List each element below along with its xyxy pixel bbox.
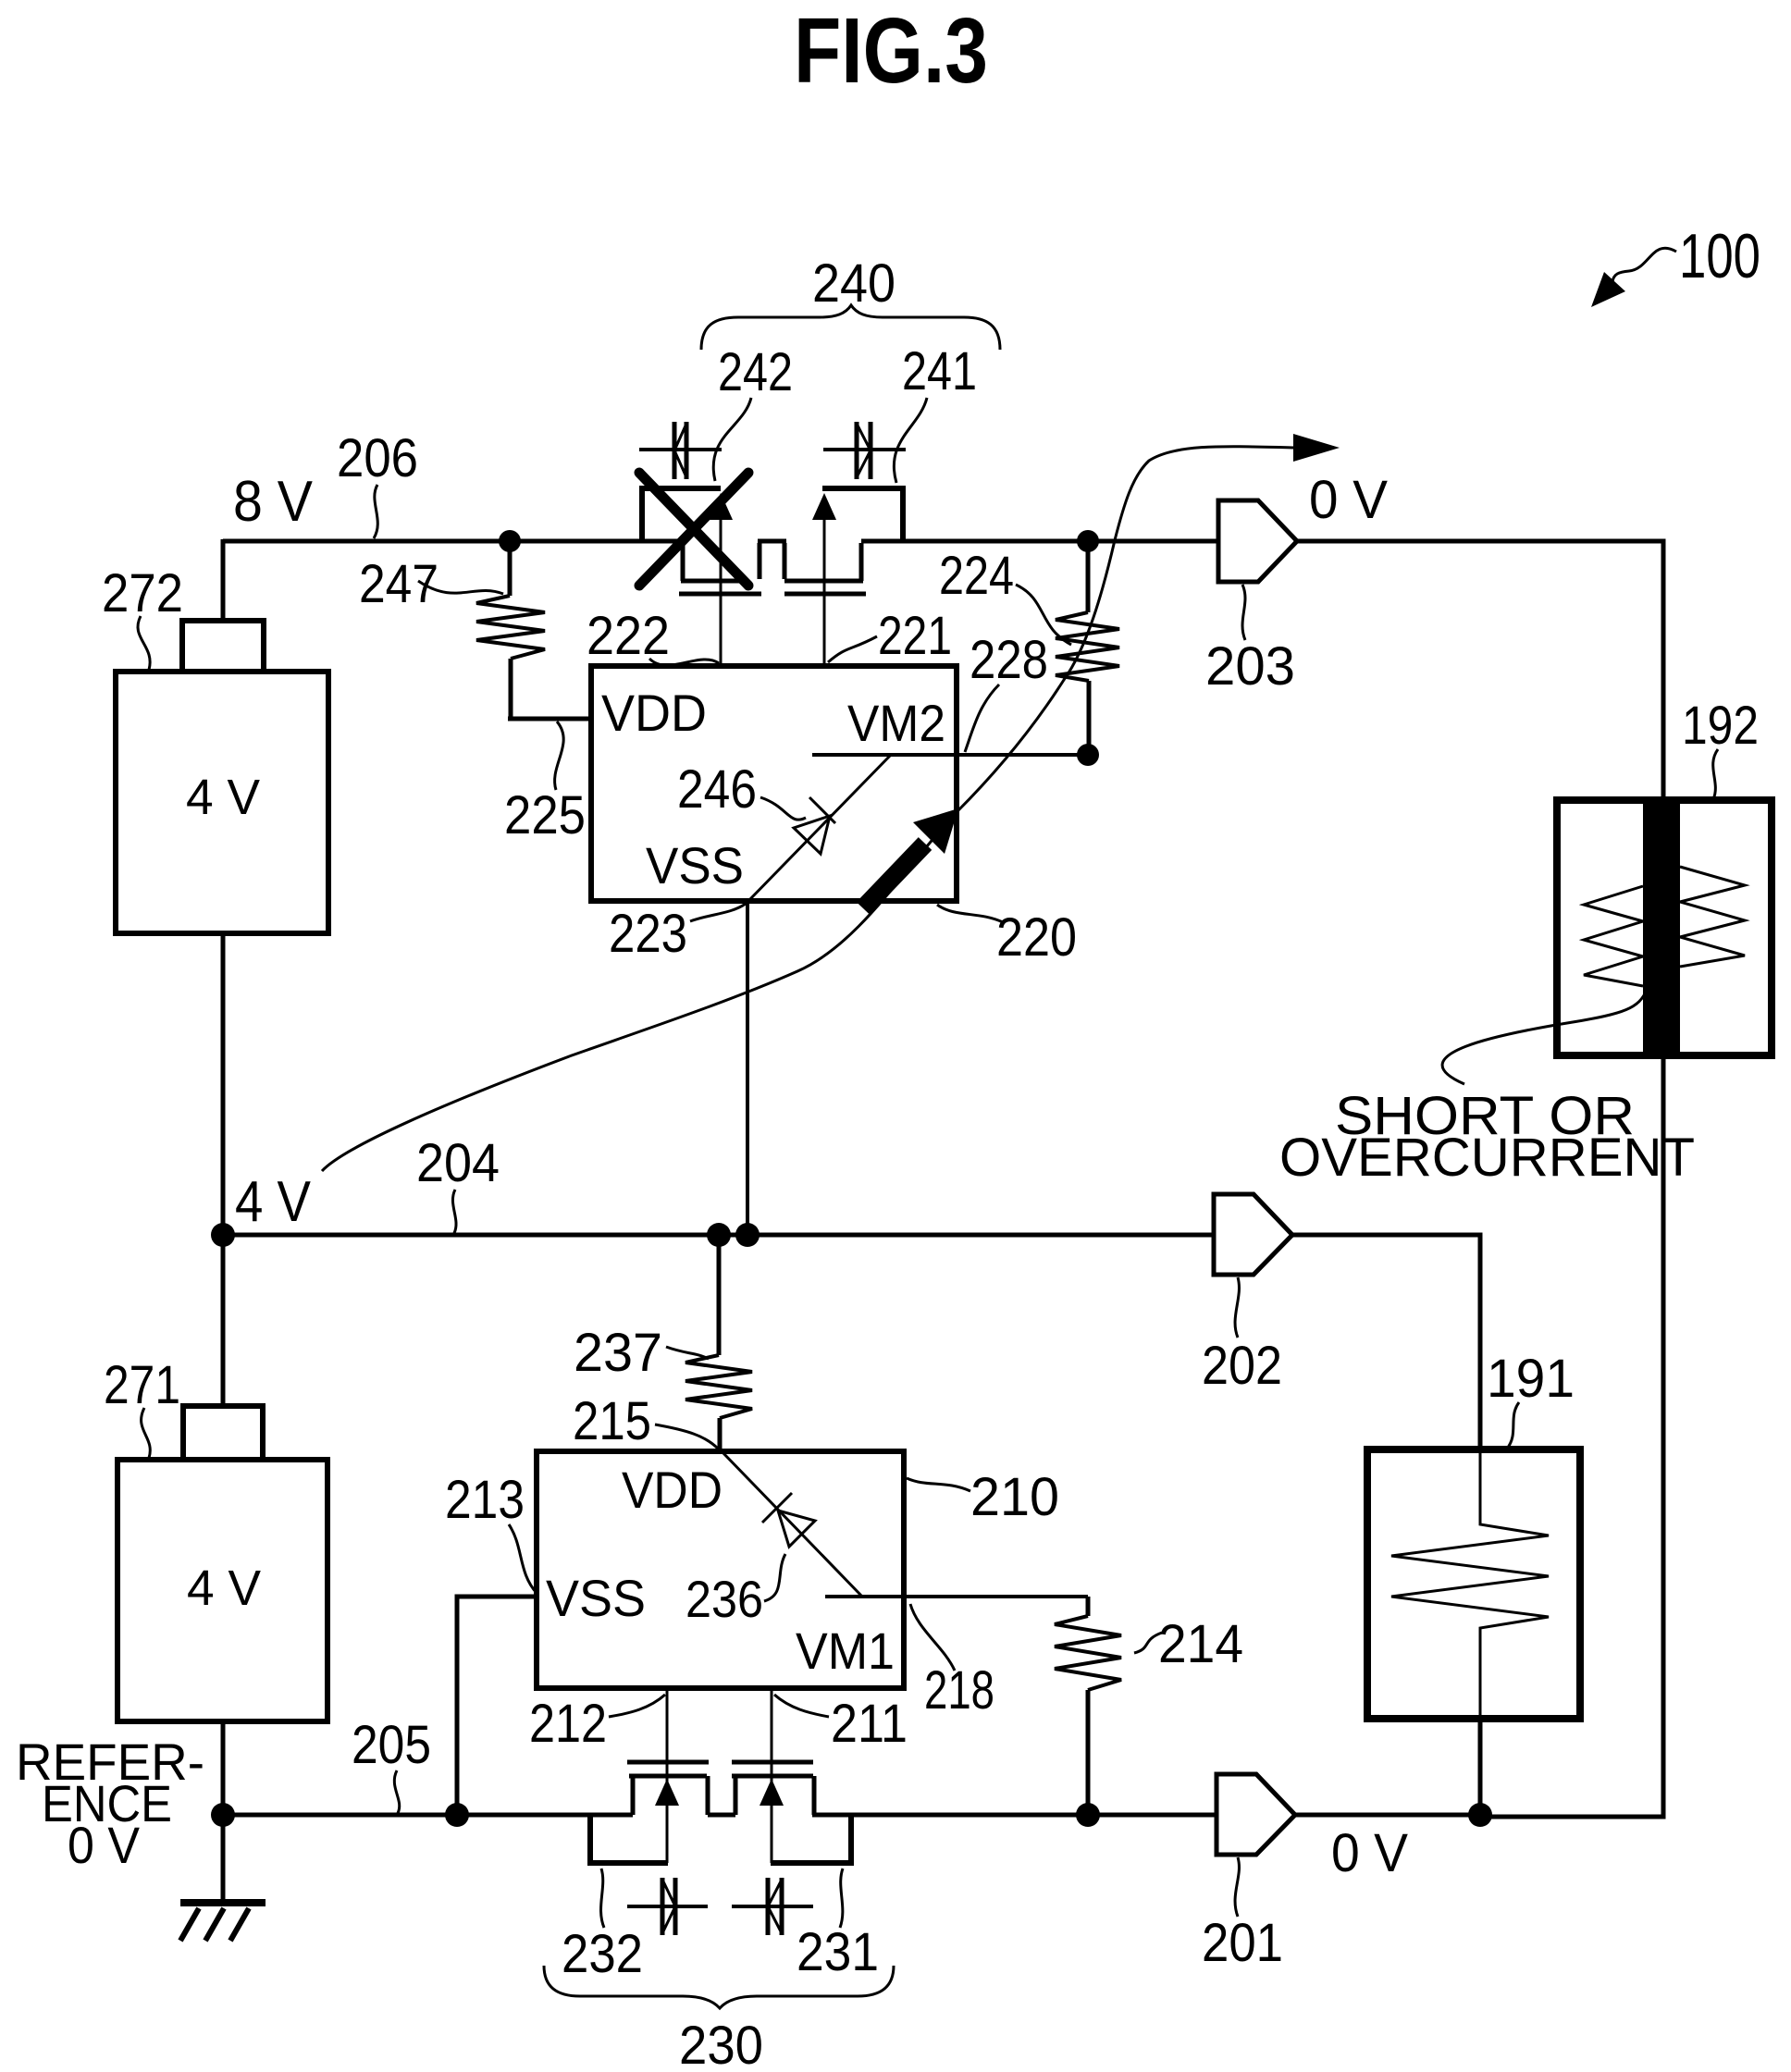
svg-text:VDD: VDD [622, 1461, 723, 1519]
svg-text:204: 204 [416, 1133, 500, 1193]
internal diode path of IC 220 [748, 755, 891, 901]
VM2 wire 228 [812, 753, 1088, 757]
label 242 [718, 342, 793, 402]
label 228 [970, 630, 1048, 690]
label 221 [878, 606, 952, 666]
leader 203 [1242, 585, 1245, 640]
wire load 191 to bottom rail [1478, 1719, 1483, 1817]
resistor 214 [1055, 1597, 1121, 1817]
leader 224 [1016, 585, 1071, 645]
svg-text:VDD: VDD [601, 684, 707, 742]
wire battery 272 bottom lead [221, 933, 226, 1235]
leader 220 [937, 905, 1003, 922]
node dot on 8V rail at resistor 247 [499, 530, 521, 552]
pin label VSS of IC 210 [546, 1569, 646, 1627]
svg-text:206: 206 [337, 428, 418, 488]
svg-text:212: 212 [529, 1694, 607, 1754]
svg-text:VM2: VM2 [847, 694, 945, 752]
leader 222 [649, 659, 719, 665]
node dot on 8V rail at resistor 224 [1077, 530, 1099, 552]
leader 201 [1235, 1857, 1239, 1917]
wire load 192 to bottom rail [1480, 1055, 1663, 1817]
leader 242 [713, 398, 751, 481]
svg-text:241: 241 [902, 341, 977, 401]
label 271 [104, 1355, 180, 1415]
resistor 247 [476, 541, 545, 719]
svg-text:222: 222 [587, 606, 670, 666]
leader 214 [1134, 1633, 1162, 1653]
svg-text:205: 205 [352, 1715, 431, 1775]
label 247 [359, 554, 438, 614]
label 202 [1202, 1336, 1282, 1396]
svg-text:VSS: VSS [646, 836, 744, 894]
label SHORT OR OVERCURRENT [1279, 1086, 1695, 1188]
buffer 202 [1214, 1194, 1292, 1275]
svg-text:246: 246 [677, 759, 757, 820]
load 191 (heater) [1367, 1449, 1580, 1719]
label 230 [679, 2016, 763, 2072]
label 222 [587, 606, 670, 666]
label 0 V at buffer 201 output [1331, 1823, 1408, 1883]
svg-text:202: 202 [1202, 1336, 1282, 1396]
body diode of transistor 242 [639, 422, 722, 479]
label 212 [529, 1694, 607, 1754]
title FIG.3 [794, 0, 988, 103]
leader 205 [394, 1770, 399, 1813]
svg-text:220: 220 [996, 907, 1077, 968]
label 210 [970, 1467, 1059, 1527]
svg-text:4 V: 4 V [187, 1560, 261, 1616]
VM1 wire [825, 1595, 1088, 1598]
svg-text:223: 223 [609, 904, 687, 964]
svg-text:FIG.3: FIG.3 [794, 0, 988, 103]
svg-text:232: 232 [562, 1924, 643, 1984]
svg-text:231: 231 [797, 1922, 879, 1982]
svg-text:272: 272 [102, 563, 183, 623]
svg-text:236: 236 [686, 1570, 763, 1628]
svg-text:191: 191 [1487, 1349, 1575, 1409]
wire VSS pin of IC 220 down to 4V rail [746, 901, 749, 1235]
wire 8V rail right segment [861, 539, 1218, 544]
label 231 [797, 1922, 879, 1982]
IC 210 box [537, 1451, 904, 1688]
brace 230 [544, 1966, 894, 2008]
wire battery 271 top lead [221, 1235, 226, 1406]
load 192 (heater with short bar) [1557, 800, 1772, 1055]
battery 271 [117, 1406, 327, 1721]
node dot 4V rail left [211, 1223, 235, 1247]
leader 206 [374, 485, 377, 538]
leader 237 [666, 1347, 709, 1359]
diode 236 inside IC 210 [762, 1493, 815, 1547]
wire battery 272 top lead [221, 539, 226, 621]
wire buffer 201 output [1295, 1813, 1480, 1818]
svg-text:237: 237 [574, 1323, 662, 1383]
node dot 0V rail at VSS branch [445, 1803, 469, 1827]
leader 215 [655, 1424, 718, 1449]
svg-text:218: 218 [924, 1660, 994, 1720]
pin label VSS of IC 220 [646, 836, 744, 894]
label 237 [574, 1323, 662, 1383]
transistor 242 (P-channel MOSFET, crossed out) [640, 486, 761, 666]
leader 228 [965, 684, 999, 752]
node dot bottom rail at load 191 [1468, 1803, 1492, 1827]
svg-text:225: 225 [504, 785, 586, 845]
label 220 [996, 907, 1077, 968]
label 272 [102, 563, 183, 623]
label 206 [337, 428, 418, 488]
body diode of transistor 232 [627, 1878, 708, 1935]
svg-text:247: 247 [359, 554, 438, 614]
wire buffer 202 output to load 191 [1292, 1235, 1480, 1449]
leader 232 [601, 1868, 604, 1928]
label 100 [1679, 221, 1760, 291]
label 223 [609, 904, 687, 964]
transistor 212/232 left N-MOSFET of pair 230 [587, 1688, 709, 1863]
svg-text:228: 228 [970, 630, 1048, 690]
label 8 V [233, 470, 314, 534]
label 205 [352, 1715, 431, 1775]
pin label VDD of IC 210 [622, 1461, 723, 1519]
wire VDD 225 to IC 220 [508, 717, 591, 721]
svg-text:271: 271 [104, 1355, 180, 1415]
brace 240 [701, 305, 1000, 350]
svg-text:100: 100 [1679, 221, 1760, 291]
svg-text:0 V: 0 V [1331, 1823, 1408, 1883]
svg-text:240: 240 [812, 253, 895, 314]
leader 223 [690, 904, 746, 921]
label 241 [902, 341, 977, 401]
svg-text:OVERCURRENT: OVERCURRENT [1279, 1128, 1695, 1188]
IC 220 box [591, 666, 957, 901]
svg-text:201: 201 [1202, 1913, 1283, 1973]
pin label VM2 of IC 220 [847, 694, 945, 752]
label 225 [504, 785, 586, 845]
svg-text:213: 213 [445, 1470, 525, 1530]
thick current arrow through IC 220 [863, 808, 958, 908]
leader 246 [760, 797, 806, 820]
leader 236 [764, 1554, 785, 1601]
label 213 [445, 1470, 525, 1530]
label 246 [677, 759, 757, 820]
body diode of transistor 241 [823, 422, 906, 479]
buffer 203 [1218, 500, 1297, 582]
svg-text:0 V: 0 V [1309, 470, 1388, 530]
pin label VM1 of IC 210 [796, 1622, 895, 1680]
label 203 [1205, 636, 1295, 697]
internal diode path of IC 210 [722, 1451, 862, 1597]
label 232 [562, 1924, 643, 1984]
label 218 [924, 1660, 994, 1720]
wire notch between transistors 242 and 241 [758, 541, 786, 579]
leader 191 [1507, 1402, 1519, 1449]
leader 204 [452, 1190, 456, 1233]
wire battery 271 bottom lead [221, 1721, 226, 1817]
label 201 [1202, 1913, 1283, 1973]
pin label VDD of IC 220 [601, 684, 707, 742]
svg-text:211: 211 [831, 1694, 908, 1754]
label REFERENCE 0 V [16, 1733, 204, 1874]
label 211 [831, 1694, 908, 1754]
label 224 [939, 546, 1014, 606]
svg-text:210: 210 [970, 1467, 1059, 1527]
leader SHORT OR OVERCURRENT to bar [1442, 990, 1647, 1084]
svg-text:214: 214 [1158, 1614, 1243, 1674]
leader 272 [138, 616, 150, 670]
svg-text:192: 192 [1682, 696, 1759, 756]
leader 213 [509, 1524, 537, 1593]
4V rail wire 204 [223, 1233, 1214, 1238]
svg-text:4 V: 4 V [186, 770, 260, 825]
leader 202 [1235, 1277, 1239, 1338]
node dot reference 0V [211, 1803, 235, 1827]
wire 8V rail left segment 206 [223, 539, 685, 544]
leader for 100 with arrowhead [1591, 248, 1676, 307]
diode 246 inside IC 220 [794, 797, 835, 854]
svg-text:VM1: VM1 [796, 1622, 895, 1680]
svg-text:0 V: 0 V [68, 1816, 141, 1874]
node dot 4V rail at VSS wire [735, 1223, 760, 1247]
buffer 201 [1217, 1774, 1295, 1855]
node dot bottom rail at resistor 214 [1076, 1803, 1100, 1827]
svg-text:242: 242 [718, 342, 793, 402]
leader 218 [910, 1604, 955, 1671]
wire buffer 203 output to load 192 [1297, 541, 1663, 800]
svg-text:221: 221 [878, 606, 952, 666]
label 0 V at buffer 203 output [1309, 470, 1388, 530]
label 215 [573, 1391, 651, 1451]
transistor 241 (P-channel MOSFET) [784, 486, 905, 666]
svg-text:230: 230 [679, 2016, 763, 2072]
resistor 237 [686, 1235, 752, 1451]
leader 241 [894, 398, 927, 483]
node dot on VM2 wire [1077, 744, 1099, 766]
current path arrow curve from 4V node to output [322, 434, 1340, 1171]
battery 272 [116, 621, 328, 933]
leader 231 [840, 1868, 843, 1928]
svg-text:224: 224 [939, 546, 1014, 606]
svg-text:215: 215 [573, 1391, 651, 1451]
leader 210 [907, 1478, 970, 1491]
svg-text:8 V: 8 V [233, 470, 314, 534]
svg-text:4 V: 4 V [235, 1170, 312, 1234]
leader 247 [418, 581, 503, 594]
label 4 V at node 204 [235, 1170, 312, 1234]
label 240 [812, 253, 895, 314]
node dot 4V rail at resistor 237 [707, 1223, 731, 1247]
leader 225 [555, 721, 564, 790]
leader 211 [774, 1695, 829, 1717]
resistor 224 [1056, 541, 1119, 755]
wire to ground [221, 1815, 226, 1903]
label 236 inside IC 210 [686, 1570, 763, 1628]
leader 192 [1713, 749, 1718, 799]
label 192 [1682, 696, 1759, 756]
svg-text:VSS: VSS [546, 1569, 646, 1627]
label 214 [1158, 1614, 1243, 1674]
label 191 [1487, 1349, 1575, 1409]
leader 221 [828, 636, 877, 662]
transistor 211/231 right N-MOSFET of pair 230 [732, 1688, 854, 1863]
X cross marking transistor 242 disabled [639, 473, 748, 586]
wire 213 from 0V rail to VSS of IC 210 [457, 1597, 537, 1815]
svg-text:203: 203 [1205, 636, 1295, 697]
ground [180, 1903, 266, 1941]
leader 271 [142, 1408, 151, 1458]
0V rail wire 205 [223, 1813, 1217, 1818]
leader 212 [609, 1695, 665, 1717]
label 204 [416, 1133, 500, 1193]
body diode of transistor 231 [732, 1878, 813, 1935]
